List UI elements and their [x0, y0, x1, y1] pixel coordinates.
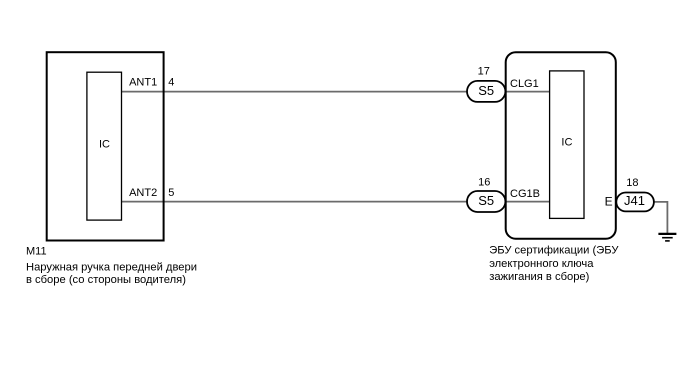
svg-text:E: E [605, 195, 613, 209]
svg-text:электронного ключа: электронного ключа [489, 258, 594, 270]
svg-text:J41: J41 [624, 193, 645, 208]
svg-text:17: 17 [478, 66, 490, 78]
svg-text:зажигания в сборе): зажигания в сборе) [489, 271, 589, 283]
svg-text:Наружная ручка передней двери: Наружная ручка передней двери [26, 262, 197, 274]
svg-text:CG1B: CG1B [510, 188, 540, 200]
svg-text:IC: IC [561, 137, 572, 149]
svg-text:4: 4 [168, 76, 174, 88]
svg-text:5: 5 [168, 187, 174, 199]
svg-text:IC: IC [99, 139, 110, 151]
svg-text:CLG1: CLG1 [510, 78, 539, 90]
svg-text:S5: S5 [478, 193, 494, 208]
svg-text:18: 18 [626, 177, 638, 189]
svg-text:S5: S5 [478, 83, 494, 98]
svg-text:16: 16 [478, 177, 490, 189]
svg-text:в сборе (со стороны водителя): в сборе (со стороны водителя) [26, 274, 186, 286]
svg-text:ЭБУ сертификации (ЭБУ: ЭБУ сертификации (ЭБУ [489, 245, 619, 257]
svg-text:ANT2: ANT2 [129, 187, 157, 199]
svg-text:M11: M11 [26, 246, 47, 258]
svg-text:ANT1: ANT1 [129, 76, 157, 88]
